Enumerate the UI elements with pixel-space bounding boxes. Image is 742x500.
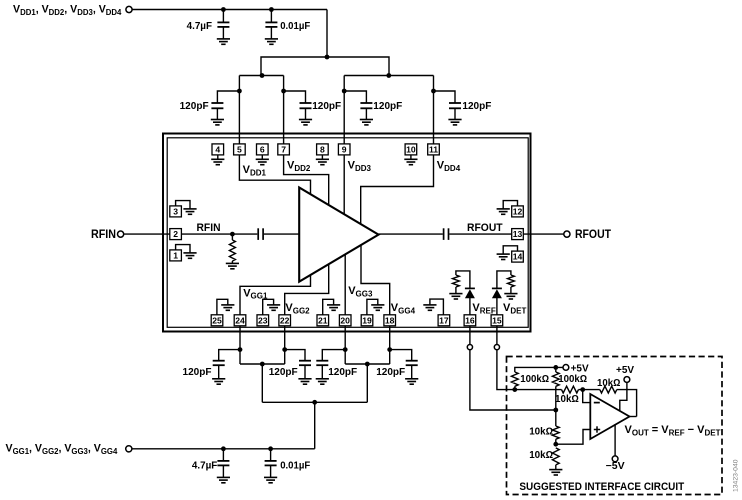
ground loop at pin 14: [503, 246, 517, 254]
wire 100k VREF pullup to VREF node (crossover): [555, 386, 557, 410]
junction RFIN shunt: [230, 232, 235, 237]
ground at pin 17: [423, 305, 436, 310]
wire VDD level 2 left (pins 5-7): [239, 75, 283, 77]
pin 24: [234, 315, 246, 326]
svg-text:0.01µF: 0.01µF: [280, 459, 311, 471]
pin 1: [170, 250, 182, 261]
ground at pin 1: [183, 253, 196, 258]
svg-text:25: 25: [212, 315, 222, 325]
terminal VREF tap: [467, 345, 472, 350]
terminal +5V op-amp supply: [624, 377, 630, 383]
ground at pin 4: [211, 159, 224, 164]
ground of VREF bias resistor: [449, 294, 462, 299]
ground of 120pF at pin 11: [448, 120, 461, 125]
op-amp noninverting input marker: [594, 426, 600, 432]
ground of 4.7uF (VGG): [217, 477, 230, 482]
ground of RFIN shunt resistor: [226, 263, 239, 268]
junction VGG collect left: [260, 362, 265, 367]
junction pin 24 feed / 120pF: [238, 347, 243, 352]
wire VGG collect right: [345, 363, 390, 365]
capacitor RF input coupling: [258, 228, 263, 240]
wire +5V supply to op-amp: [620, 382, 627, 411]
wire to inverting node: [579, 389, 600, 391]
resistor RFIN shunt to ground: [231, 234, 233, 240]
ground of 120pF at pin 24: [212, 379, 225, 384]
wire VDD rail drop to distribution: [326, 10, 328, 58]
junction VGG rail / 0.01uF: [268, 446, 273, 451]
wire pin 10 internal ground lead: [410, 155, 412, 159]
svg-text:16: 16: [465, 315, 475, 325]
pin 16: [464, 315, 476, 326]
ground of 120pF at pin 7: [299, 120, 312, 125]
pin 23: [257, 315, 269, 326]
svg-text:120pF: 120pF: [180, 100, 210, 112]
wire +5V to pullup resistors: [515, 367, 563, 372]
junction pin 18 feed / 120pF: [387, 347, 392, 352]
svg-text:18: 18: [385, 315, 395, 325]
op-amp U1: [590, 394, 629, 439]
capacitor 120pF at pin 24: [219, 350, 240, 361]
ground loop at pin 12: [503, 201, 517, 209]
wire VGG rail riser: [314, 402, 316, 449]
pin 25: [211, 315, 223, 326]
pin 10: [405, 144, 417, 155]
svg-text:−5V: −5V: [606, 461, 625, 472]
wire op-amp negative supply: [614, 424, 616, 456]
terminal +5V pullup supply: [563, 365, 569, 371]
wire pin 6 internal ground lead: [261, 155, 263, 159]
wire pin 5 feed: [238, 76, 240, 144]
svg-text:10kΩ: 10kΩ: [529, 450, 553, 461]
svg-text:VDD1​: VDD1​: [243, 164, 267, 177]
capacitor 120pF at pin 7: [284, 91, 306, 103]
svg-text:RFOUT: RFOUT: [467, 222, 503, 234]
wire pin 16 to VREF tap: [469, 326, 471, 344]
wire VDD3 internal routing: [343, 155, 345, 214]
wire pin 11 feed: [433, 76, 435, 144]
IC package outer outline: [163, 134, 531, 332]
svg-text:10kΩ: 10kΩ: [529, 427, 553, 438]
svg-text:100kΩ: 100kΩ: [558, 374, 587, 385]
capacitor 4.7uF (VDD): [222, 10, 224, 23]
wire pin 16 internal (VREF): [469, 298, 471, 315]
wire VDET diode to bias resistor: [497, 271, 511, 289]
pin 12: [512, 206, 524, 217]
svg-text:1: 1: [173, 251, 178, 261]
pin 3: [170, 206, 182, 217]
svg-text:VGG3​: VGG3​: [348, 285, 373, 298]
svg-text:120pF: 120pF: [183, 366, 213, 378]
wire pin 9 feed: [343, 76, 345, 144]
wire VGG level C: [262, 401, 367, 403]
ground at pin 21: [327, 305, 340, 310]
svg-text:VGG1​, VGG2​, VGG3​, VGG4​: VGG1​, VGG2​, VGG3​, VGG4​: [6, 443, 118, 456]
wire pin 13 to RFOUT terminal: [523, 233, 564, 235]
resistor 10k series (VDET to inverting input): [562, 386, 579, 393]
resistor 100k VDET pullup: [511, 372, 518, 386]
terminal -5V op-amp supply: [612, 456, 618, 462]
ground at pin 25: [221, 305, 234, 310]
wire pin 18 bias feed: [389, 326, 391, 364]
ground of 120pF at pin 5: [211, 120, 224, 125]
wire VDD supply rail: [132, 9, 327, 11]
junction VDD rail / 4.7uF: [221, 7, 226, 12]
junction inverting node: [580, 387, 585, 392]
svg-text:120pF: 120pF: [312, 100, 342, 112]
pin 19: [361, 315, 373, 326]
pin 15: [491, 315, 503, 326]
pin 14: [512, 251, 524, 262]
wire pin 24 bias feed: [239, 326, 241, 364]
terminal VDET tap: [494, 345, 499, 350]
wire op-amp output: [630, 416, 637, 418]
wire VDD4 internal routing: [361, 155, 434, 224]
svg-text:3: 3: [173, 207, 178, 217]
pin 11: [428, 144, 440, 155]
svg-text:VGG4​: VGG4​: [391, 302, 416, 315]
svg-text:23: 23: [258, 315, 268, 325]
svg-text:4.7µF: 4.7µF: [187, 20, 213, 32]
ground at pin 8: [316, 159, 329, 164]
wire VDD2 internal routing: [284, 155, 329, 205]
ground at pin 19: [371, 305, 384, 310]
ground of 4.7uF (VDD): [217, 39, 230, 44]
ground of 0.01uF (VDD): [265, 39, 278, 44]
wire feedback to output: [617, 390, 637, 417]
capacitor 120pF at pin 5: [217, 91, 239, 103]
wire VGG3 internal routing: [344, 254, 346, 314]
pin 22: [279, 315, 291, 326]
ground of 120pF at pin 22: [298, 379, 311, 384]
ground loop at pin 17: [430, 299, 444, 315]
junction pin 11 feed / 120pF: [431, 89, 436, 94]
ground of 0.01uF (VGG): [264, 477, 277, 482]
suggested interface circuit dashed border: [507, 357, 723, 495]
junction VDD level 2 right center: [386, 73, 391, 78]
wire pin 22 bias feed: [284, 326, 286, 364]
junction VDET rail / 100k: [512, 387, 517, 392]
svg-text:15: 15: [492, 315, 502, 325]
pin 18: [384, 315, 396, 326]
wire VGG1 internal routing: [240, 275, 311, 315]
svg-text:VGG2​: VGG2​: [285, 302, 310, 315]
svg-text:10: 10: [406, 145, 416, 155]
svg-text:8: 8: [320, 145, 325, 155]
svg-text:VDET​: VDET​: [503, 302, 526, 315]
svg-text:120pF: 120pF: [328, 366, 358, 378]
svg-text:4.7µF: 4.7µF: [192, 459, 218, 471]
svg-text:19: 19: [362, 315, 372, 325]
svg-text:VOUT​ = VREF​ − VDET​: VOUT​ = VREF​ − VDET​: [625, 424, 721, 437]
pin 4: [212, 144, 224, 155]
svg-text:RFIN: RFIN: [197, 222, 221, 234]
wire pin 7 feed: [283, 76, 285, 144]
svg-text:10kΩ: 10kΩ: [597, 378, 621, 389]
wire VDET rail: [515, 389, 562, 391]
capacitor 120pF at pin 11: [434, 91, 456, 103]
wire VREF tap down: [470, 350, 556, 410]
svg-text:+5V: +5V: [616, 365, 634, 376]
svg-text:13423-040: 13423-040: [733, 459, 740, 492]
junction VDD level 1 center: [325, 55, 330, 60]
wire VGG level C left drop: [261, 364, 263, 402]
resistor 10k divider lower: [552, 448, 559, 465]
wire amplifier output to coupling cap: [379, 233, 443, 235]
ground at pin 3: [183, 209, 196, 214]
svg-text:13: 13: [513, 229, 523, 239]
capacitor 0.01uF (VDD): [270, 10, 272, 23]
ground at pin 12: [497, 209, 510, 214]
junction VGG rail / 4.7uF: [221, 446, 226, 451]
svg-text:VDD4​: VDD4​: [437, 160, 461, 173]
junction pin 9 feed / 120pF: [342, 89, 347, 94]
ground of 120pF at pin 18: [405, 379, 418, 384]
ground loop at pin 1: [176, 245, 190, 253]
ground loop at pin 3: [176, 201, 190, 209]
capacitor 120pF at pin 9: [344, 91, 366, 103]
wire VREF diode to bias resistor: [456, 271, 470, 289]
wire VGG collect left: [240, 363, 285, 365]
pin 20: [339, 315, 351, 326]
junction pin 7 feed / 120pF: [281, 89, 286, 94]
capacitor RF output coupling: [444, 228, 449, 240]
op-amp inverting input marker: [594, 402, 600, 404]
svg-text:100kΩ: 100kΩ: [520, 374, 549, 385]
wire VDD1 internal routing: [239, 155, 310, 194]
svg-text:24: 24: [235, 315, 245, 325]
svg-text:22: 22: [280, 315, 290, 325]
wire RFIN terminal to pin 2: [124, 233, 170, 235]
junction VGG level C center: [312, 400, 317, 405]
terminal VDD input: [126, 6, 132, 12]
junction pin 22 feed / 120pF: [282, 347, 287, 352]
pin 2: [170, 229, 182, 240]
ground at pin 14: [497, 254, 510, 259]
resistor 10k feedback: [600, 386, 617, 393]
wire VGG supply rail: [132, 448, 315, 450]
junction pin 5 feed / 120pF: [237, 89, 242, 94]
wire coupling cap to amplifier input: [264, 233, 299, 235]
terminal RFIN: [118, 231, 124, 237]
svg-text:14: 14: [513, 252, 523, 262]
wire pin 2 to coupling cap: [181, 233, 257, 235]
svg-text:VDD2​: VDD2​: [287, 160, 311, 173]
svg-text:5: 5: [237, 145, 242, 155]
svg-text:11: 11: [429, 145, 438, 155]
wire pin 8 internal ground lead: [321, 155, 323, 159]
svg-text:2: 2: [173, 229, 178, 239]
wire VGG2 internal routing: [285, 264, 329, 315]
junction VDD level 2 left center: [260, 73, 265, 78]
pin 5: [234, 144, 246, 155]
terminal VGG input: [126, 446, 132, 452]
svg-text:120pF: 120pF: [376, 366, 406, 378]
ground loop at pin 25: [217, 299, 228, 315]
capacitor 0.01uF (VGG): [270, 449, 272, 461]
ground of 120pF at pin 20: [316, 379, 329, 384]
ground at pin 10: [404, 159, 417, 164]
svg-text:+5V: +5V: [571, 363, 589, 374]
wire VDET tap down: [497, 350, 515, 390]
svg-text:7: 7: [281, 145, 286, 155]
junction +5V rail / 100k right: [553, 365, 558, 370]
svg-text:20: 20: [340, 315, 350, 325]
pin 6: [257, 144, 269, 155]
resistor VREF bias: [453, 275, 460, 287]
diode VREF detector: [465, 288, 475, 298]
wire coupling cap to pin 13: [449, 233, 511, 235]
svg-text:VDD1​, VDD2​, VDD3​, VDD4​: VDD1​, VDD2​, VDD3​, VDD4​: [13, 4, 122, 17]
pin 9: [338, 144, 350, 155]
capacitor 120pF at pin 22: [285, 350, 305, 361]
wire pin 15 to VDET tap: [496, 326, 498, 344]
svg-text:120pF: 120pF: [462, 100, 492, 112]
wire pin 20 bias feed: [344, 326, 346, 364]
pin 17: [438, 315, 450, 326]
junction pin 20 feed / 120pF: [343, 347, 348, 352]
svg-text:21: 21: [318, 315, 328, 325]
svg-text:4: 4: [215, 145, 220, 155]
ground loop at pin 23: [263, 299, 274, 315]
wire pin 15 internal (VDET): [496, 298, 498, 315]
wire VGG level C right drop: [366, 364, 368, 402]
svg-text:VREF​: VREF​: [472, 302, 495, 315]
wire VGG4 internal routing: [361, 245, 390, 315]
svg-text:12: 12: [513, 207, 523, 217]
ground of 120pF at pin 9: [360, 120, 373, 125]
ground at pin 23: [267, 305, 280, 310]
capacitor 4.7uF (VGG): [222, 449, 224, 461]
svg-text:6: 6: [260, 145, 265, 155]
wire pin 4 internal ground lead: [217, 155, 219, 159]
wire VDD distribution level 1: [261, 57, 389, 76]
amplifier triangle: [299, 188, 378, 282]
svg-text:120pF: 120pF: [269, 366, 299, 378]
ground at pin 6: [256, 159, 269, 164]
junction VREF node: [553, 408, 558, 413]
capacitor 120pF at pin 20: [322, 350, 345, 361]
ground of VDET bias resistor: [504, 294, 517, 299]
resistor VDET bias: [508, 275, 515, 287]
svg-text:RFOUT: RFOUT: [575, 229, 611, 241]
svg-text:0.01µF: 0.01µF: [280, 20, 311, 32]
junction VGG collect right: [365, 362, 370, 367]
svg-text:RFIN: RFIN: [91, 229, 116, 241]
svg-text:17: 17: [439, 315, 449, 325]
junction VDD rail / 0.01uF: [269, 7, 274, 12]
ground loop at pin 19: [367, 299, 378, 315]
resistor 10k VREF divider upper: [555, 410, 557, 426]
wire inverting input: [583, 390, 591, 403]
pin 21: [317, 315, 329, 326]
svg-text:120pF: 120pF: [373, 100, 403, 112]
svg-text:VDD3​: VDD3​: [348, 160, 372, 173]
wire noninverting input: [556, 430, 591, 445]
pin 7: [278, 144, 290, 155]
svg-text:9: 9: [342, 145, 347, 155]
svg-text:SUGGESTED INTERFACE CIRCUIT: SUGGESTED INTERFACE CIRCUIT: [519, 481, 684, 493]
ground loop at pin 21: [323, 299, 334, 315]
pin 8: [317, 144, 329, 155]
resistor 100k VREF pullup: [555, 367, 557, 372]
capacitor 120pF at pin 18: [390, 350, 412, 361]
IC die inner outline: [167, 138, 528, 327]
wire VDD level 2 right (pins 9-11): [344, 75, 433, 77]
ground of divider: [549, 470, 562, 475]
junction noninverting node: [553, 442, 558, 447]
diode VDET detector: [492, 288, 502, 298]
svg-text:10kΩ: 10kΩ: [555, 394, 579, 405]
terminal RFOUT: [564, 231, 570, 237]
pin 13: [512, 229, 524, 240]
